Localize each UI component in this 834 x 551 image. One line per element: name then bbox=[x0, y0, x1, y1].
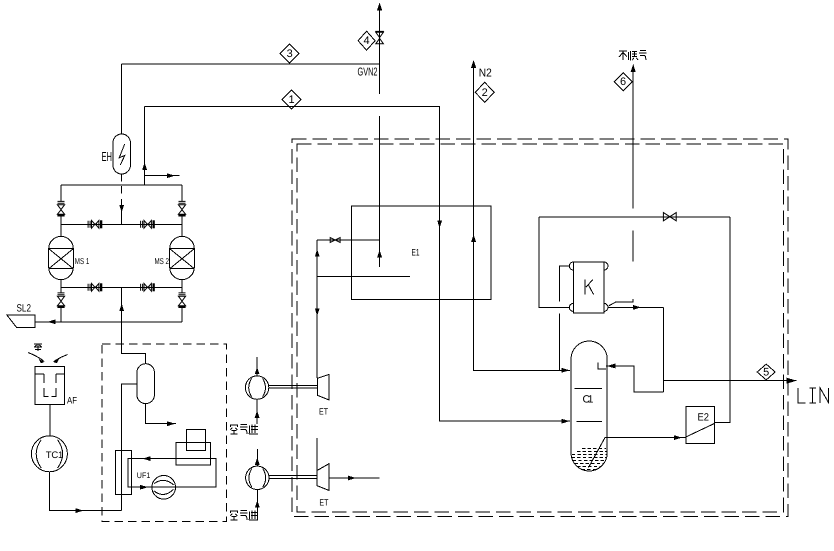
booster compressor 2 bbox=[246, 466, 269, 489]
pump UF1 bbox=[152, 476, 176, 500]
wire separator drain with arrow bbox=[146, 404, 176, 427]
wire ET1 inlet riser bbox=[316, 240, 318, 378]
label C1 bbox=[583, 394, 594, 406]
C1 feed inner line bbox=[577, 420, 603, 422]
pre-purification dashed box bbox=[102, 344, 226, 521]
svg-text:GVN2: GVN2 bbox=[358, 67, 378, 79]
C1 liquid hatching bbox=[572, 448, 607, 469]
valve GVN2 bbox=[375, 31, 384, 43]
svg-text:ET: ET bbox=[319, 498, 328, 508]
svg-text:AF: AF bbox=[67, 396, 77, 407]
wire reflux staircase to C1 top bbox=[606, 366, 664, 392]
node diamond 4 bbox=[358, 31, 375, 50]
expansion turbine ET1 bbox=[318, 375, 329, 400]
label air inlet 1 bbox=[230, 425, 258, 435]
wire recirculation valve line bbox=[539, 216, 730, 218]
node diamond 6 bbox=[614, 73, 632, 91]
wire MS1 riser lower bbox=[60, 280, 62, 322]
expansion turbine ET2 bbox=[317, 464, 329, 491]
svg-text:N2: N2 bbox=[479, 68, 492, 80]
vessel MS1 bbox=[49, 236, 74, 279]
valve lower cross left bbox=[88, 283, 102, 291]
wire regen branch with arrow bbox=[145, 173, 180, 178]
arrow left to SL2 bbox=[48, 319, 56, 324]
C1 dip tube bbox=[598, 363, 606, 370]
filter AF bbox=[35, 366, 64, 404]
node diamond 3 bbox=[280, 44, 299, 63]
arrow up N2 inside E1 bbox=[471, 235, 476, 243]
wire circulation loop bbox=[128, 459, 216, 488]
heat exchanger E1 bbox=[352, 206, 492, 299]
wire K feed from valve line bbox=[539, 217, 569, 308]
svg-text:5: 5 bbox=[763, 367, 769, 379]
wire air riser in prepurifier bbox=[122, 384, 137, 511]
svg-text:E1: E1 bbox=[412, 247, 420, 258]
arrow line1 down inside E1 bbox=[437, 221, 442, 229]
arrow intake right bbox=[53, 355, 68, 364]
svg-text:3: 3 bbox=[287, 48, 293, 60]
wire LIN product line bbox=[664, 380, 797, 382]
arrow right N2 line into C1 bbox=[562, 368, 570, 373]
arrow right C1 bottoms to E2 bbox=[674, 435, 682, 440]
wire E2 outlet up to valve line bbox=[714, 217, 730, 422]
wire booster1 top bbox=[255, 357, 260, 376]
svg-text:MS 2: MS 2 bbox=[155, 256, 170, 266]
arrow up ET1 riser bbox=[315, 249, 320, 257]
condenser K body bbox=[573, 262, 604, 313]
wire EH riser bbox=[121, 64, 123, 134]
valve MS2 bottom bbox=[178, 293, 185, 308]
label air in chinese top left bbox=[34, 344, 42, 352]
arrow right TC1 discharge bbox=[76, 508, 84, 513]
svg-text:MS 1: MS 1 bbox=[75, 256, 90, 266]
wire waste gas riser bbox=[609, 70, 633, 306]
svg-text:E2: E2 bbox=[698, 411, 710, 423]
C1 tray line bbox=[575, 387, 603, 389]
label GVN2 bbox=[358, 67, 378, 79]
valve recirculation bbox=[663, 213, 676, 221]
valve upper cross right bbox=[141, 220, 155, 228]
label air inlet 2 bbox=[230, 511, 258, 521]
node diamond 2 bbox=[475, 82, 494, 102]
shaft turbine2 bbox=[269, 475, 317, 478]
arrow waste gas top bbox=[631, 64, 636, 72]
label UF1 bbox=[137, 471, 151, 480]
arrow line1 right into C1 bbox=[562, 419, 570, 424]
wire K top loop to C1 bbox=[560, 266, 570, 370]
label ET2 bbox=[319, 498, 328, 508]
wire line3 horizontal bbox=[122, 63, 380, 65]
label K bbox=[585, 279, 593, 294]
cold box double dashed border inner bbox=[297, 144, 784, 512]
wire MS1 riser upper bbox=[60, 185, 62, 236]
svg-text:UF1: UF1 bbox=[137, 471, 151, 480]
wire K bottom nozzle to riser and LIN bbox=[608, 307, 664, 392]
arrow LIN bbox=[787, 378, 797, 384]
label AF bbox=[67, 396, 77, 407]
label LIN bbox=[798, 388, 829, 403]
valve MS2 top bbox=[178, 201, 185, 216]
svg-text:TC1: TC1 bbox=[46, 450, 64, 461]
wire AF to TC1 bbox=[49, 404, 51, 435]
wire GVN2 line upper bbox=[379, 8, 381, 267]
arrow intake left bbox=[28, 353, 45, 364]
arrow right K outlet bbox=[633, 305, 641, 310]
svg-text:SL2: SL2 bbox=[17, 303, 32, 315]
label MS1 bbox=[75, 256, 90, 266]
svg-text:4: 4 bbox=[364, 35, 370, 47]
valve lower cross right bbox=[141, 283, 155, 291]
svg-text:6: 6 bbox=[620, 76, 626, 88]
arrow left on loop top bbox=[143, 456, 155, 461]
compressor TC1 bbox=[31, 436, 67, 472]
wire SL2 vent line bbox=[35, 321, 182, 323]
label TC1 bbox=[46, 450, 64, 461]
wire regen riser x145 bbox=[144, 107, 146, 186]
label MS2 bbox=[155, 256, 170, 266]
arrow N2 top bbox=[471, 60, 476, 68]
arrow up center air riser bbox=[119, 304, 124, 313]
wire bypass valve line bbox=[317, 239, 379, 241]
arrow up on regen riser bbox=[142, 163, 147, 171]
vessel MS2 bbox=[170, 236, 195, 279]
C1 bottom outlet diagonal bbox=[589, 438, 686, 468]
subcooler E2 bbox=[686, 407, 715, 444]
wire MS2 riser upper bbox=[181, 185, 183, 236]
label E1 bbox=[412, 247, 420, 258]
valve MS1 bottom bbox=[57, 293, 64, 308]
wire line1 horizontal to E1 and C1 bbox=[145, 107, 570, 422]
valve upper cross left bbox=[88, 220, 102, 228]
valve MS1 top bbox=[57, 201, 64, 216]
arrow up GVN2 inside E1 bbox=[377, 250, 382, 258]
wire booster2 bottom bbox=[255, 490, 260, 521]
label SL2 bbox=[17, 303, 32, 315]
label E2 bbox=[698, 411, 710, 423]
wire MS upper cross manifold bbox=[61, 223, 182, 225]
svg-text:C1: C1 bbox=[583, 394, 594, 406]
filter housing on riser UF1 bbox=[115, 450, 131, 494]
wire ET2 discharge with arrow bbox=[329, 476, 380, 481]
svg-text:1: 1 bbox=[288, 94, 294, 106]
wire center air riser to MS bbox=[122, 287, 146, 363]
wire booster1 bottom bbox=[255, 399, 260, 424]
cooler water pipes bbox=[186, 430, 205, 451]
label waste gas chinese bbox=[619, 51, 646, 61]
arrow left into C1 dip tube bbox=[607, 364, 616, 369]
node diamond 5 bbox=[757, 364, 775, 380]
wire booster2 top bbox=[255, 449, 260, 466]
label N2 bbox=[479, 68, 492, 80]
wire MS lower cross manifold bbox=[61, 286, 182, 288]
svg-text:ET: ET bbox=[319, 407, 328, 417]
arrow right on loop bottom bbox=[140, 485, 148, 490]
water cooler box bbox=[176, 443, 210, 465]
wire E1 tap to ET1 riser bbox=[317, 275, 410, 277]
arrow GVN2 top bbox=[377, 3, 382, 11]
booster compressor 1 bbox=[245, 376, 268, 399]
silencer SL2 bbox=[7, 315, 36, 328]
wire TC1 discharge to riser bbox=[49, 472, 121, 511]
label ET1 bbox=[319, 407, 328, 417]
label EH bbox=[102, 149, 113, 164]
wire ET2 inlet bbox=[316, 438, 318, 471]
svg-text:EH: EH bbox=[102, 149, 113, 164]
node diamond 1 bbox=[282, 90, 301, 109]
condenser K nozzles bbox=[569, 262, 608, 311]
shaft turbine1 bbox=[269, 386, 318, 389]
arrow down center regen line bbox=[119, 199, 124, 224]
cold box double dashed border outer bbox=[292, 139, 788, 517]
wire MS top manifold bbox=[61, 184, 182, 186]
wire N2 product line bbox=[474, 66, 570, 370]
heater EH bbox=[113, 134, 130, 174]
arrow down ET1 riser bbox=[315, 308, 320, 316]
wire MS2 riser lower bbox=[181, 280, 183, 322]
wire dashed EH to manifold bbox=[121, 175, 123, 194]
valve bypass bbox=[330, 238, 340, 243]
column C1 bbox=[571, 341, 607, 471]
separator vessel bbox=[137, 364, 155, 404]
svg-text:2: 2 bbox=[482, 87, 488, 99]
